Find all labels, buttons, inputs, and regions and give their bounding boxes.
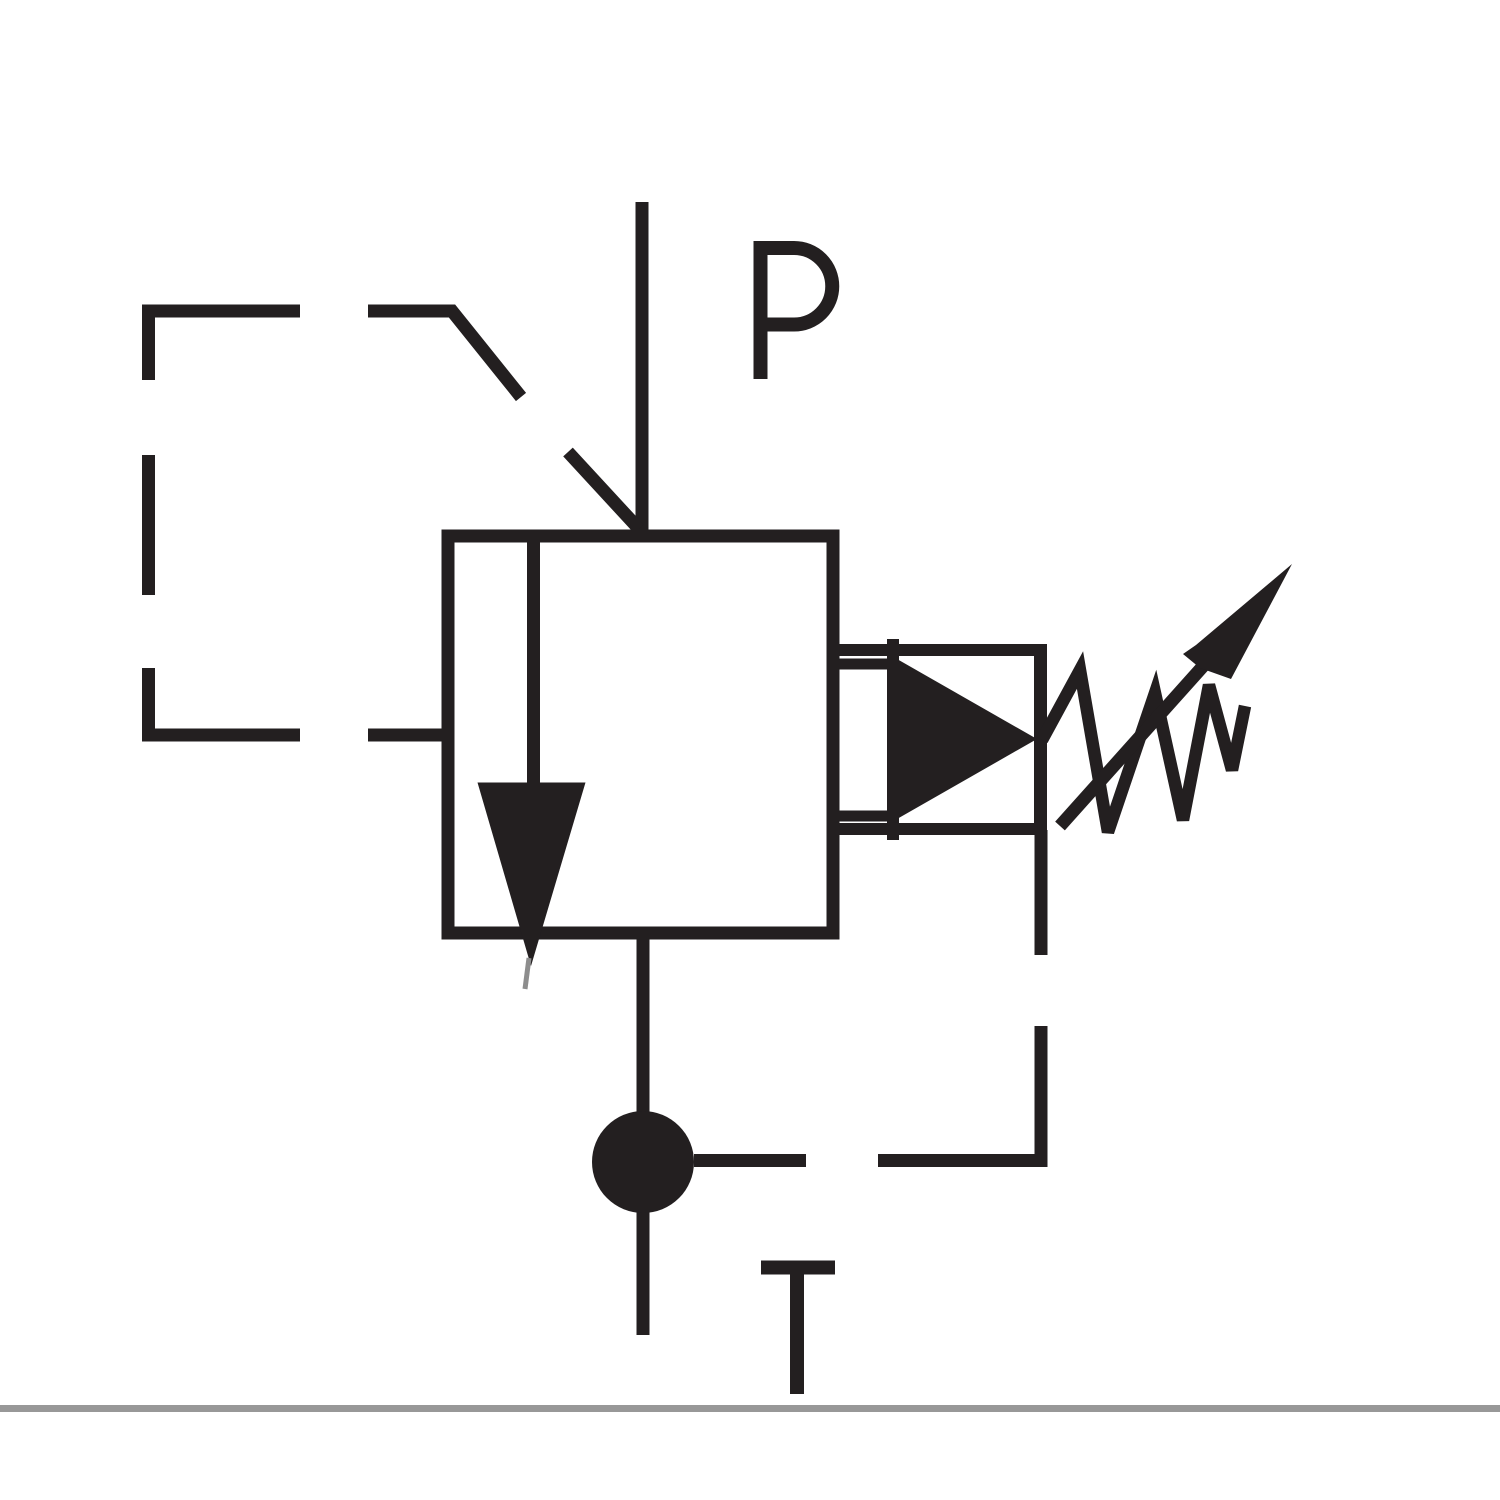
relief valve box right edge — [1034, 644, 1047, 835]
pilot line (dashed) diagonal run to valve inlet — [568, 452, 639, 529]
port label T — [761, 1261, 835, 1394]
junction node — [592, 1111, 694, 1213]
spring — [1042, 670, 1245, 832]
pilot line (dashed) bottom run — [149, 668, 450, 735]
relief valve box bottom edge — [827, 823, 1048, 835]
pilot line (dashed) left run — [142, 455, 155, 595]
drain line (dashed) horizontal run — [694, 1154, 806, 1167]
relief valve stub top line — [833, 659, 893, 670]
pilot line (dashed) top run — [149, 311, 522, 397]
relief valve stub bottom line — [833, 811, 893, 822]
relief valve seat line (inner vertical) — [887, 639, 899, 840]
internal passage line — [527, 536, 540, 800]
adjustment arrow head — [1183, 564, 1292, 679]
check valve poppet (filled arrow) — [478, 783, 586, 967]
wire T return line — [637, 933, 650, 1335]
relief valve box top edge — [827, 644, 1048, 656]
port label P — [761, 248, 833, 379]
drain line (dashed) vertical run — [878, 830, 1041, 1161]
valve body (main envelope) — [448, 536, 833, 933]
adjustment arrow shaft — [1060, 664, 1205, 826]
relief valve poppet (filled triangle) — [897, 659, 1037, 819]
wire P supply line — [636, 202, 649, 538]
